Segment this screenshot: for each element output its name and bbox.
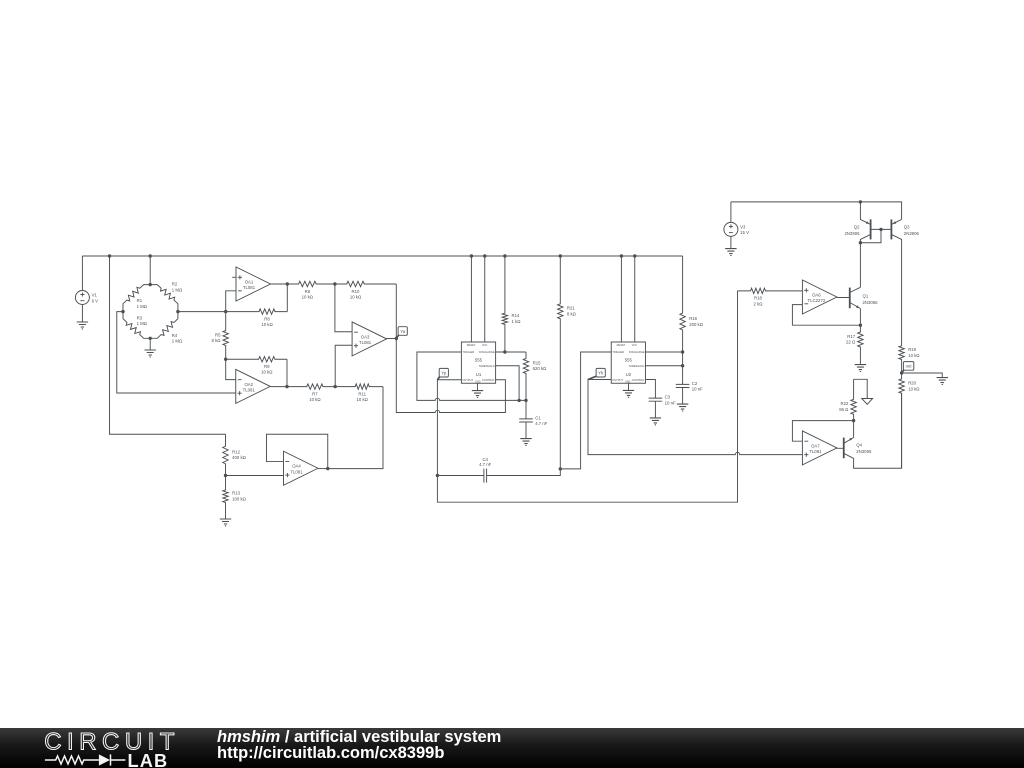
resistor R7 xyxy=(270,384,335,402)
svg-text:10 kΩ: 10 kΩ xyxy=(302,294,314,299)
svg-text:TLC2272: TLC2272 xyxy=(808,298,826,303)
junction R16-discharge xyxy=(681,350,684,353)
svg-text:R20: R20 xyxy=(908,380,916,385)
svg-text:R1: R1 xyxy=(137,298,143,303)
ground at U2 xyxy=(623,390,634,397)
ground at V3 xyxy=(725,249,736,256)
svg-text:THRESHOLD: THRESHOLD xyxy=(628,364,644,368)
svg-text:TL081: TL081 xyxy=(290,469,303,474)
svg-text:OA7: OA7 xyxy=(811,443,820,448)
svg-text:GND: GND xyxy=(625,381,631,384)
junction rail-R14 xyxy=(503,254,506,257)
svg-text:555: 555 xyxy=(625,357,633,362)
svg-text:CONTROL: CONTROL xyxy=(632,378,645,382)
svg-text:R8: R8 xyxy=(264,316,270,321)
resistor R9 xyxy=(226,357,287,375)
ground at C2 xyxy=(677,404,688,411)
junction threshold tap xyxy=(517,399,520,402)
junction out node xyxy=(900,371,903,374)
wire rail branch to R12 xyxy=(110,256,226,434)
wire U2 gnd xyxy=(628,383,630,390)
flag Ya xyxy=(396,327,407,339)
svg-text:2N3906: 2N3906 xyxy=(904,231,920,236)
resistor R5 xyxy=(212,312,229,360)
wire OA7 - feedback xyxy=(792,421,853,442)
svg-text:15 V: 15 V xyxy=(740,230,749,235)
svg-text:R3: R3 xyxy=(137,315,143,320)
wire C1 bottom lead xyxy=(525,422,527,439)
svg-text:2 kΩ: 2 kΩ xyxy=(754,301,764,306)
svg-text:OA4: OA4 xyxy=(292,464,301,469)
svg-text:8 kΩ: 8 kΩ xyxy=(567,312,577,317)
junction R6-R10 xyxy=(333,282,336,285)
resistor R21 xyxy=(558,256,577,469)
svg-text:R9: R9 xyxy=(264,364,270,369)
resistor R11 xyxy=(335,384,383,402)
junction bridge top xyxy=(149,283,152,286)
svg-text:1 MΩ: 1 MΩ xyxy=(137,321,148,326)
wire U1 vcc to rail xyxy=(484,256,486,342)
junction R21-C4-trigger xyxy=(559,467,562,470)
svg-text:10 kΩ: 10 kΩ xyxy=(350,294,362,299)
svg-text:R2: R2 xyxy=(172,282,178,287)
wire bridge left to OA2 + xyxy=(117,312,236,393)
transistor Q3 xyxy=(891,219,919,243)
ground at U1 xyxy=(472,391,483,398)
wire U1 reset to rail xyxy=(470,256,472,342)
svg-text:22 Ω: 22 Ω xyxy=(846,340,856,345)
ground at C3 xyxy=(650,418,661,425)
ground at R13 xyxy=(220,519,231,526)
wire V1 top lead xyxy=(81,256,83,291)
wire U2 control xyxy=(645,380,655,399)
wire OA3 - input xyxy=(335,284,352,332)
junction R15-C1 xyxy=(524,399,527,402)
junction OA2 output xyxy=(285,385,288,388)
svg-text:R14: R14 xyxy=(512,313,520,318)
wire C2 bottom lead xyxy=(682,388,684,405)
node A junction xyxy=(224,310,227,313)
svg-text:10 nF: 10 nF xyxy=(665,400,676,405)
transistor Q4 xyxy=(836,438,872,459)
resistor R18 xyxy=(738,288,803,306)
junction R14-discharge xyxy=(503,350,506,353)
svg-text:86 Ω: 86 Ω xyxy=(839,407,849,412)
svg-text:10 nF: 10 nF xyxy=(692,387,703,392)
resistor R16 xyxy=(680,256,704,384)
terminal arrow symbol xyxy=(862,399,873,405)
wire OA1 - input xyxy=(226,291,236,312)
resistor R13 xyxy=(223,476,247,520)
svg-text:R4: R4 xyxy=(172,333,178,338)
ground at V1 xyxy=(77,322,88,329)
svg-text:V3: V3 xyxy=(740,224,746,229)
junction Q2 emitter xyxy=(859,200,862,203)
wire U1 threshold xyxy=(496,366,519,401)
wire bridge bottom to ground xyxy=(149,338,151,350)
svg-text:1 MΩ: 1 MΩ xyxy=(137,304,148,309)
resistor R10 xyxy=(335,281,396,299)
555 timer U1 xyxy=(461,342,495,384)
svg-text:10 kΩ: 10 kΩ xyxy=(261,322,273,327)
CircuitLab logo xyxy=(44,728,180,768)
resistor R17 xyxy=(846,325,863,364)
op-amp OA1 xyxy=(236,267,271,301)
wire R10 down to OA3 output xyxy=(395,284,397,339)
svg-text:TRIGGER: TRIGGER xyxy=(612,350,624,354)
svg-text:R22: R22 xyxy=(841,401,849,406)
junction rail-left branch xyxy=(108,254,111,257)
svg-text:2N3906: 2N3906 xyxy=(844,231,860,236)
svg-text:R17: R17 xyxy=(847,334,855,339)
svg-text:OA3: OA3 xyxy=(361,334,370,339)
svg-text:400 kΩ: 400 kΩ xyxy=(232,455,247,460)
svg-text:R13: R13 xyxy=(232,491,240,496)
capacitor C3 xyxy=(649,395,676,406)
resistor R4 xyxy=(150,312,183,344)
wire OA3 + input xyxy=(335,345,352,386)
wire OA4 feedback xyxy=(267,434,328,468)
junction Q2 collector xyxy=(859,241,862,244)
wire U2 discharge xyxy=(645,351,682,353)
wire out node to ground xyxy=(902,373,943,378)
junction OA4 output xyxy=(326,467,329,470)
junction OA1 output xyxy=(286,282,289,285)
wire U2 trigger loop xyxy=(560,352,611,469)
wire C4 right lead xyxy=(487,469,561,476)
svg-text:620 kΩ: 620 kΩ xyxy=(533,366,548,371)
svg-text:10 kΩ: 10 kΩ xyxy=(309,397,321,402)
svg-text:GND: GND xyxy=(475,381,481,384)
wire U2 reset to rail xyxy=(620,256,622,342)
wire R8 feedback up xyxy=(286,284,288,312)
transistor Q1 xyxy=(837,287,878,308)
svg-text:2N3055: 2N3055 xyxy=(856,449,872,454)
wire R9 feedback down xyxy=(286,359,288,386)
svg-text:1 MΩ: 1 MΩ xyxy=(172,288,183,293)
svg-text:VCC: VCC xyxy=(482,343,488,347)
junction bridge bottom xyxy=(149,337,152,340)
wire U1 discharge xyxy=(496,351,526,353)
wire V3 to current mirror xyxy=(731,202,902,220)
wire V3 bottom lead xyxy=(730,236,732,248)
svg-text:Yh: Yh xyxy=(598,371,604,376)
svg-text:Q4: Q4 xyxy=(856,443,862,448)
op-amp OA2 xyxy=(236,369,271,403)
op-amp OA3 xyxy=(352,322,387,356)
svg-text:10 kΩ: 10 kΩ xyxy=(908,353,920,358)
wire Q2-Q3 base tie xyxy=(871,228,892,230)
junction rail-bridge xyxy=(149,254,152,257)
junction rail-U1 reset xyxy=(470,254,473,257)
wire OA6 - feedback xyxy=(792,305,860,326)
svg-text:C3: C3 xyxy=(665,395,671,400)
junction OA3 output node Ya xyxy=(395,337,398,340)
resistor R8 xyxy=(226,309,288,327)
svg-text:U2: U2 xyxy=(626,372,632,377)
svg-text:1 kΩ: 1 kΩ xyxy=(512,319,522,324)
svg-text:R15: R15 xyxy=(533,360,541,365)
svg-text:TL081: TL081 xyxy=(243,285,256,290)
svg-text:OUTPUT: OUTPUT xyxy=(462,378,473,382)
svg-text:R5: R5 xyxy=(215,332,221,337)
wire bridge right to node A xyxy=(178,311,226,313)
wire OA1 + stub xyxy=(232,276,236,278)
wire U1 gnd xyxy=(477,383,479,390)
wire rail to bridge top xyxy=(149,256,151,285)
junction rail-U1 vcc xyxy=(483,254,486,257)
junction node B xyxy=(224,358,227,361)
wire Q1 emitter xyxy=(859,309,861,326)
svg-text:Ya: Ya xyxy=(400,329,405,334)
555 timer U2 xyxy=(611,342,645,384)
junction rail-U2 vcc xyxy=(633,254,636,257)
svg-text:U1: U1 xyxy=(476,372,482,377)
wire U2 threshold xyxy=(645,365,682,367)
svg-text:LAB: LAB xyxy=(128,751,169,768)
wire Q4 collector to R20 xyxy=(854,393,902,468)
voltage source V1 xyxy=(75,291,98,305)
svg-text:8 kΩ: 8 kΩ xyxy=(212,338,222,343)
wire Q4 emitter up xyxy=(853,421,855,438)
flag out xyxy=(902,362,914,373)
svg-text:OA1: OA1 xyxy=(245,279,254,284)
wire U2 vcc to rail xyxy=(634,256,636,342)
op-amp OA4 xyxy=(284,451,319,485)
wire V1 bottom lead xyxy=(81,305,83,323)
resistor R19 xyxy=(899,346,920,373)
svg-text:R7: R7 xyxy=(312,391,318,396)
svg-text:Q1: Q1 xyxy=(863,293,869,298)
svg-text:10 kΩ: 10 kΩ xyxy=(908,386,920,391)
svg-text:1 MΩ: 1 MΩ xyxy=(172,339,183,344)
svg-text:OA2: OA2 xyxy=(244,382,253,387)
resistor R20 xyxy=(899,373,920,468)
svg-text:10 kΩ: 10 kΩ xyxy=(261,370,273,375)
svg-text:C2: C2 xyxy=(692,381,698,386)
wire U1 output to R18 node xyxy=(437,291,737,502)
ground at R17 xyxy=(855,365,866,372)
svg-text:Yp: Yp xyxy=(441,371,446,376)
wire mirror base to Q2 collector xyxy=(860,229,881,242)
svg-text:R16: R16 xyxy=(689,316,697,321)
resistor R2 xyxy=(150,282,183,312)
junction bridge left xyxy=(121,310,124,313)
svg-text:R18: R18 xyxy=(754,296,762,301)
wire C3 bottom lead xyxy=(654,401,656,418)
wire U2 output to OA7 + xyxy=(588,380,802,455)
wire Q2 collector to Q1 xyxy=(859,243,861,288)
svg-text:R10: R10 xyxy=(352,289,360,294)
wire top supply rail xyxy=(82,255,682,257)
svg-text:4.7 nF: 4.7 nF xyxy=(535,421,548,426)
capacitor C2 xyxy=(676,381,703,392)
svg-text:V1: V1 xyxy=(92,293,98,298)
resistor R22 xyxy=(839,379,856,420)
resistor R6 xyxy=(271,281,335,299)
svg-text:4.7 nF: 4.7 nF xyxy=(479,462,492,467)
op-amp OA7 xyxy=(802,431,837,465)
svg-text:TL081: TL081 xyxy=(359,340,372,345)
svg-text:TRIGGER: TRIGGER xyxy=(462,350,474,354)
wire U1 trigger loop xyxy=(417,352,526,400)
wire R22 to arrow terminal xyxy=(854,379,868,398)
svg-text:TL081: TL081 xyxy=(243,388,256,393)
wire OA3 out to U1 control xyxy=(396,339,505,413)
svg-text:R21: R21 xyxy=(567,306,575,311)
junction Q1 emitter node xyxy=(859,324,862,327)
flag Yp xyxy=(437,368,448,379)
transistor Q2 xyxy=(844,202,870,243)
wire C1 top lead xyxy=(525,400,527,419)
junction rail-R21 xyxy=(559,254,562,257)
svg-text:out: out xyxy=(906,364,913,369)
svg-text:Q2: Q2 xyxy=(854,224,860,229)
svg-text:Q3: Q3 xyxy=(904,224,910,229)
wire C4 left lead xyxy=(437,475,484,477)
junction mirror bases xyxy=(879,228,882,231)
svg-text:10 kΩ: 10 kΩ xyxy=(357,397,369,402)
junction bridge right xyxy=(176,310,179,313)
svg-text:CONTROL: CONTROL xyxy=(482,378,495,382)
resistor R14 xyxy=(502,256,521,352)
capacitor C4 xyxy=(479,457,492,483)
junction R12-R13 xyxy=(224,474,227,477)
svg-text:OUTPUT: OUTPUT xyxy=(612,378,623,382)
svg-text:R6: R6 xyxy=(305,289,311,294)
svg-text:VCC: VCC xyxy=(632,343,638,347)
ground at out xyxy=(937,378,948,385)
svg-text:R19: R19 xyxy=(908,347,916,352)
wire OA2 - input xyxy=(226,359,236,379)
svg-text:RESET: RESET xyxy=(617,343,626,347)
svg-text:6 V: 6 V xyxy=(92,298,99,303)
wire V3 top lead xyxy=(730,202,732,223)
svg-text:C1: C1 xyxy=(535,415,541,420)
svg-text:R11: R11 xyxy=(358,391,366,396)
wire divider to OA4 + xyxy=(226,475,284,477)
svg-text:DISCHARGE: DISCHARGE xyxy=(629,350,645,354)
resistor R15 xyxy=(523,352,547,400)
op-amp OA6 xyxy=(802,280,837,314)
svg-text:100 kΩ: 100 kΩ xyxy=(232,496,247,501)
svg-text:2N3055: 2N3055 xyxy=(863,300,879,305)
junction rail-U2 reset xyxy=(620,254,623,257)
svg-text:RESET: RESET xyxy=(467,343,476,347)
junction R7-R11 xyxy=(334,385,337,388)
svg-text:THRESHOLD: THRESHOLD xyxy=(479,364,495,368)
svg-text:TL081: TL081 xyxy=(809,449,822,454)
wire OA3 output xyxy=(385,338,396,340)
voltage source V3 xyxy=(724,222,749,236)
ground at bridge xyxy=(145,350,156,357)
junction R16-threshold xyxy=(681,364,684,367)
svg-text:DISCHARGE: DISCHARGE xyxy=(479,350,495,354)
junction Yp-C4 xyxy=(436,474,439,477)
svg-text:OA6: OA6 xyxy=(812,292,821,297)
svg-text:R12: R12 xyxy=(232,449,240,454)
svg-text:555: 555 xyxy=(475,357,483,362)
junction Q4 emitter node xyxy=(852,419,855,422)
resistor R12 xyxy=(223,434,247,475)
wire Q3 collector to R19 xyxy=(901,243,903,346)
wire R11 to OA4 output xyxy=(328,387,383,469)
resistor R3 xyxy=(123,312,150,339)
wire OA4 output xyxy=(318,468,328,470)
resistor R1 xyxy=(123,285,150,312)
ground at C1 xyxy=(520,439,531,446)
capacitor C1 xyxy=(519,415,548,426)
svg-text:200 kΩ: 200 kΩ xyxy=(689,322,704,327)
flag Yh xyxy=(588,368,605,379)
